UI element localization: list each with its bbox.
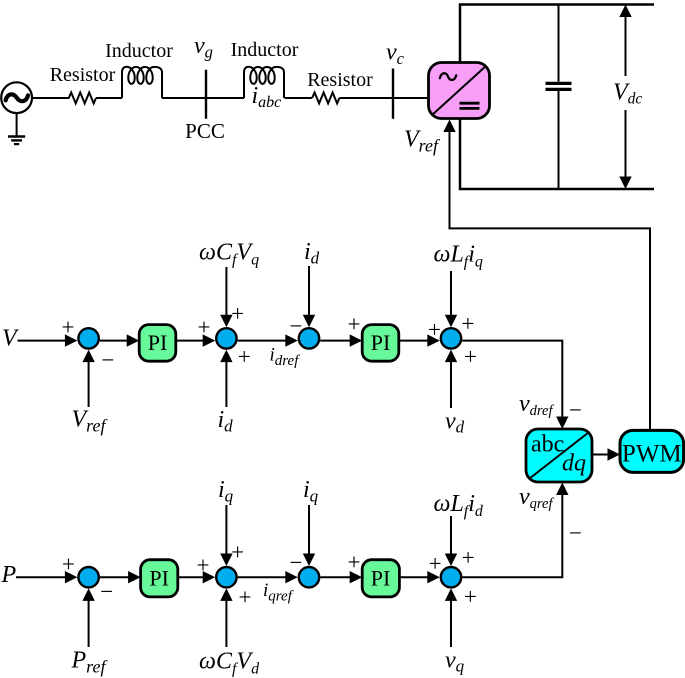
wire id up into S2: [225, 360, 227, 407]
PI block 3: [141, 560, 178, 597]
resistor R1: [69, 93, 96, 104]
svg-text:+: +: [238, 344, 251, 369]
wire PI4 to S8: [399, 576, 430, 578]
wire S6 to S7: [238, 576, 289, 578]
svg-text:+: +: [461, 311, 474, 336]
svg-text:id: id: [304, 239, 320, 268]
svg-text:abc: abc: [531, 432, 564, 458]
summing node S7: [299, 567, 319, 587]
svg-text:+: +: [348, 550, 361, 575]
svg-text:ωCfVq: ωCfVq: [199, 239, 259, 268]
svg-text:PCC: PCC: [185, 119, 225, 143]
wire PWM output feedback to converter: [450, 132, 651, 430]
svg-text:P: P: [1, 562, 17, 588]
wire iq down into S6: [225, 505, 227, 556]
PWM block: [620, 430, 684, 472]
svg-text:+: +: [197, 553, 210, 578]
arrow Vref into converter: [443, 120, 455, 133]
resistor R2: [312, 93, 339, 104]
wire wLfiq down into S4: [450, 271, 452, 317]
Vdc measurement arrow: [619, 5, 631, 190]
converter U1: [429, 63, 490, 119]
wire V input: [18, 340, 69, 342]
svg-text:dq: dq: [562, 451, 586, 477]
svg-text:+: +: [464, 344, 477, 369]
svg-text:Pref: Pref: [71, 648, 109, 677]
wire wLfid down into S8: [450, 516, 452, 556]
svg-text:+: +: [239, 585, 252, 610]
summing node S6: [216, 567, 236, 587]
svg-text:+: +: [231, 540, 244, 565]
svg-text:−: −: [102, 348, 115, 373]
wire S1 to PI1: [100, 340, 130, 342]
svg-text:vq: vq: [445, 648, 465, 676]
wire vd up into S4: [450, 360, 452, 408]
svg-text:V: V: [2, 325, 19, 351]
wire PI3 to S6: [178, 576, 206, 578]
wire wCfVd up into S6: [225, 599, 227, 647]
svg-text:+: +: [62, 552, 75, 577]
inductor L2: [244, 67, 284, 98]
svg-text:Vref: Vref: [72, 407, 109, 436]
svg-text:Vref: Vref: [404, 127, 441, 156]
PI block 2: [362, 325, 399, 362]
wire P input: [16, 576, 68, 578]
summing node S2: [216, 328, 236, 348]
wire wCfVq down into S2: [225, 267, 227, 317]
svg-text:idref: idref: [270, 345, 301, 370]
svg-text:vg: vg: [194, 33, 213, 62]
wire S7 to PI4: [320, 576, 353, 578]
wire inductor to PCC and on: [162, 97, 244, 99]
summing node S5: [78, 567, 98, 587]
svg-text:−: −: [569, 521, 582, 546]
svg-text:iq: iq: [303, 477, 319, 506]
wire source to resistor: [32, 97, 69, 99]
svg-text:−: −: [569, 398, 582, 423]
wire PI2 to S4: [399, 340, 431, 342]
svg-text:PI: PI: [371, 566, 391, 591]
svg-text:Resistor: Resistor: [50, 64, 116, 86]
wire S5 to PI3: [100, 576, 131, 578]
PI block 1: [139, 325, 176, 362]
svg-text:−: −: [290, 314, 303, 339]
svg-text:Vdc: Vdc: [613, 80, 642, 108]
PI block 4: [362, 560, 399, 597]
svg-text:Inductor: Inductor: [231, 39, 299, 61]
svg-text:vd: vd: [445, 409, 465, 437]
svg-text:iabc: iabc: [252, 83, 282, 111]
svg-text:iqref: iqref: [263, 580, 294, 605]
svg-text:ωCfVd: ωCfVd: [199, 649, 260, 678]
top DC rail: [460, 5, 654, 63]
summing node S3: [299, 328, 319, 348]
CONTROL ROW 1: [18, 266, 569, 429]
svg-text:+: +: [348, 312, 361, 337]
summing node S4: [441, 328, 461, 348]
svg-text:vqref: vqref: [519, 484, 554, 512]
wire Pref up into S5: [88, 599, 90, 647]
node PCC tick: [205, 70, 207, 119]
wire vq up into S8: [450, 599, 452, 647]
wire iq down into S7: [308, 505, 310, 556]
svg-text:Resistor: Resistor: [307, 69, 373, 91]
svg-text:+: +: [464, 584, 477, 609]
svg-text:PI: PI: [148, 330, 168, 355]
svg-text:−: −: [290, 550, 303, 575]
summing node S8: [441, 567, 461, 587]
svg-text:ωLfiq: ωLfiq: [434, 241, 483, 270]
svg-text:PWM: PWM: [622, 441, 682, 468]
wire Vref up into S1: [88, 360, 90, 407]
wire S3 to PI2: [320, 340, 353, 342]
svg-text:+: +: [198, 315, 211, 340]
svg-text:+: +: [62, 315, 75, 340]
node vc tick: [392, 69, 394, 119]
inductor L1: [122, 67, 162, 98]
ground: [8, 113, 25, 144]
wire inductor2 to resistor2: [285, 97, 312, 99]
wire resistor2 to converter: [339, 97, 428, 99]
summing node S1: [78, 328, 98, 348]
svg-text:Inductor: Inductor: [105, 40, 173, 62]
wire resistor to inductor: [96, 97, 122, 99]
svg-text:ωLfid: ωLfid: [434, 491, 484, 520]
arrow abc/dq to PWM: [592, 454, 611, 456]
svg-text:PI: PI: [149, 566, 169, 591]
svg-text:PI: PI: [371, 330, 391, 355]
wire S2 to S3: [238, 340, 289, 342]
bottom DC rail: [460, 119, 654, 190]
svg-text:−: −: [100, 579, 113, 604]
svg-text:+: +: [231, 301, 244, 326]
wire PI1 to S2: [176, 340, 206, 342]
svg-text:iq: iq: [218, 477, 234, 506]
svg-text:+: +: [429, 551, 442, 576]
svg-text:+: +: [428, 317, 441, 342]
wire id down into S3: [308, 266, 310, 317]
wire S8 to abc/dq (vqref): [462, 493, 562, 577]
wire S4 to abc/dq (vdref): [462, 341, 562, 419]
svg-text:vc: vc: [386, 40, 405, 69]
capacitor C1: [546, 5, 572, 190]
AC source G1: [1, 82, 32, 113]
CONTROL ROW 2: [16, 429, 684, 647]
abc/dq block: [526, 429, 592, 482]
svg-text:id: id: [218, 407, 234, 436]
svg-text:vdref: vdref: [519, 391, 554, 419]
svg-text:+: +: [462, 545, 475, 570]
